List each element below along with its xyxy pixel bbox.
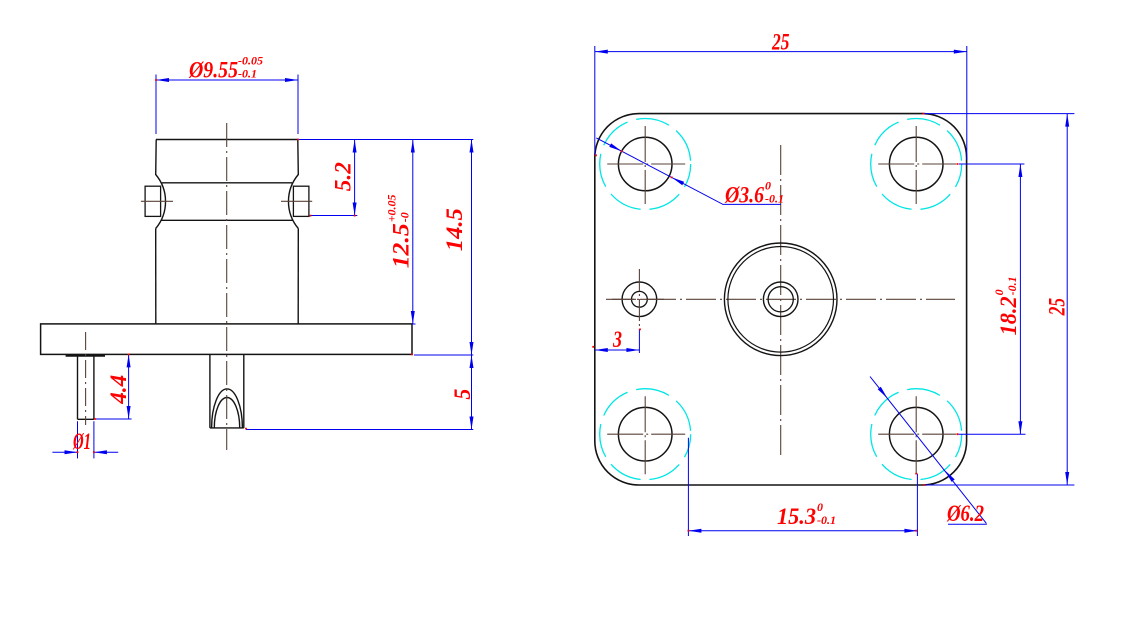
svg-text:-0: -0 [398,212,412,222]
dia 6.2 leader line [870,377,987,525]
flange bottom extension [414,354,473,356]
svg-text:-0.1: -0.1 [817,513,836,527]
svg-text:25: 25 [1045,298,1070,316]
mounting hole top-right circle [889,137,943,191]
dim 5.2 line [354,140,356,216]
hole top-left crosshair [605,124,685,204]
center contact outer circle [763,282,798,317]
svg-text:-0.1: -0.1 [238,67,257,81]
dim 9.55 line [156,79,298,81]
left pin boss under flange [66,354,105,356]
svg-text:5.2: 5.2 [331,162,356,191]
svg-text:Ø9.55: Ø9.55 [188,58,238,83]
dim 12.5 line [412,140,414,325]
counterbore top-left dashed circle [600,119,691,210]
svg-text:-0.05: -0.05 [238,54,263,68]
mounting hole bottom-left circle [618,407,672,461]
bayonet ring right arc [288,175,298,229]
counterbore bottom-left dashed circle [600,389,691,480]
lug left centerline [141,200,173,202]
center pin bottom edge [210,427,244,429]
svg-text:14.5: 14.5 [442,208,467,251]
wire body left side upper [155,140,158,176]
bayonet lug right [293,186,309,216]
center boss outer circle [724,243,837,356]
svg-text:-0.1: -0.1 [765,192,784,206]
dim 3 extension [638,329,640,353]
dim 4.4 line [128,354,130,419]
dimension definition points [77,79,959,531]
flange outline [41,324,412,355]
lug right centerline [281,200,312,202]
svg-text:15.3: 15.3 [777,504,816,529]
plate vertical centerline [780,145,782,455]
svg-text:0: 0 [817,500,823,514]
top right extension line [298,139,474,141]
bayonet ring bottom edge [161,219,293,221]
dim 15.3 line [688,530,917,532]
wire body right side upper [297,140,300,176]
main vertical centerline [226,123,228,450]
dim 15.3 extensions [688,438,917,536]
dia 3.6 leader line [596,138,781,205]
svg-text:0: 0 [765,179,771,193]
svg-text:+0.05: +0.05 [385,194,399,222]
dim 5 line [471,355,473,430]
dim right 25 line [1066,114,1068,485]
mounting hole top-left circle [618,137,672,191]
center pin insulator dome outer [212,389,243,428]
svg-text:Ø3.6: Ø3.6 [724,183,764,208]
svg-text:25: 25 [771,29,789,54]
svg-text:3: 3 [612,327,622,352]
wire body left side lower [155,229,157,324]
mounting hole bottom-right circle [889,407,943,461]
svg-text:4.4: 4.4 [106,375,131,405]
left pin right edge [93,354,95,419]
hole top-right crosshair [876,124,956,204]
dim right 25 extensions [923,114,1074,485]
side pin hole crosshair [612,269,667,330]
bayonet ring left arc [156,175,166,229]
dim 5.2 bottom extension [311,215,358,217]
dim d1 line [52,451,118,453]
side pin hole outer circle [622,282,657,317]
svg-text:Ø6.2: Ø6.2 [946,501,984,526]
wire body right side lower [297,229,299,324]
left pin left edge [77,354,79,419]
left pin bottom edge [78,418,94,420]
dim 18.2 extensions [959,164,1026,434]
svg-text:12.5: 12.5 [389,223,414,268]
bayonet lug left [145,186,161,216]
bayonet ring top edge [162,182,292,184]
dim 3 line [595,349,640,351]
side pin hole inner circle [632,291,648,307]
dim 14.5 line [471,140,473,356]
pin bottom extension [246,429,473,431]
plate horizontal centerline [606,298,955,300]
center contact inner circle [768,287,793,312]
dim 4.4 bottom extension [95,418,132,420]
counterbore bottom-right dashed circle [871,389,962,480]
center pin right edge [243,354,245,428]
wire body top edge [156,139,298,141]
left pin centerline [85,332,87,425]
dim 9.55 extension lines [156,75,298,135]
center boss inner rim circle [728,246,834,352]
dim 18.2 line [1019,164,1021,434]
dim d1 extension lines [78,421,94,458]
center pin left edge [209,354,211,428]
dim 12.5 flange-top extension [412,323,416,325]
dim top 25 extensions [595,46,967,160]
flange plate outline [595,114,967,485]
counterbore top-right dashed circle [871,119,962,210]
hole bottom-left crosshair [605,394,685,474]
hole bottom-right crosshair [876,394,956,474]
svg-text:18.2: 18.2 [996,296,1021,335]
svg-text:0: 0 [992,289,1006,295]
dim top 25 line [595,51,967,53]
svg-text:5: 5 [450,389,475,400]
svg-text:Ø1: Ø1 [72,429,91,454]
center pin insulator dome inner [214,398,239,428]
svg-text:-0.1: -0.1 [1005,276,1019,295]
